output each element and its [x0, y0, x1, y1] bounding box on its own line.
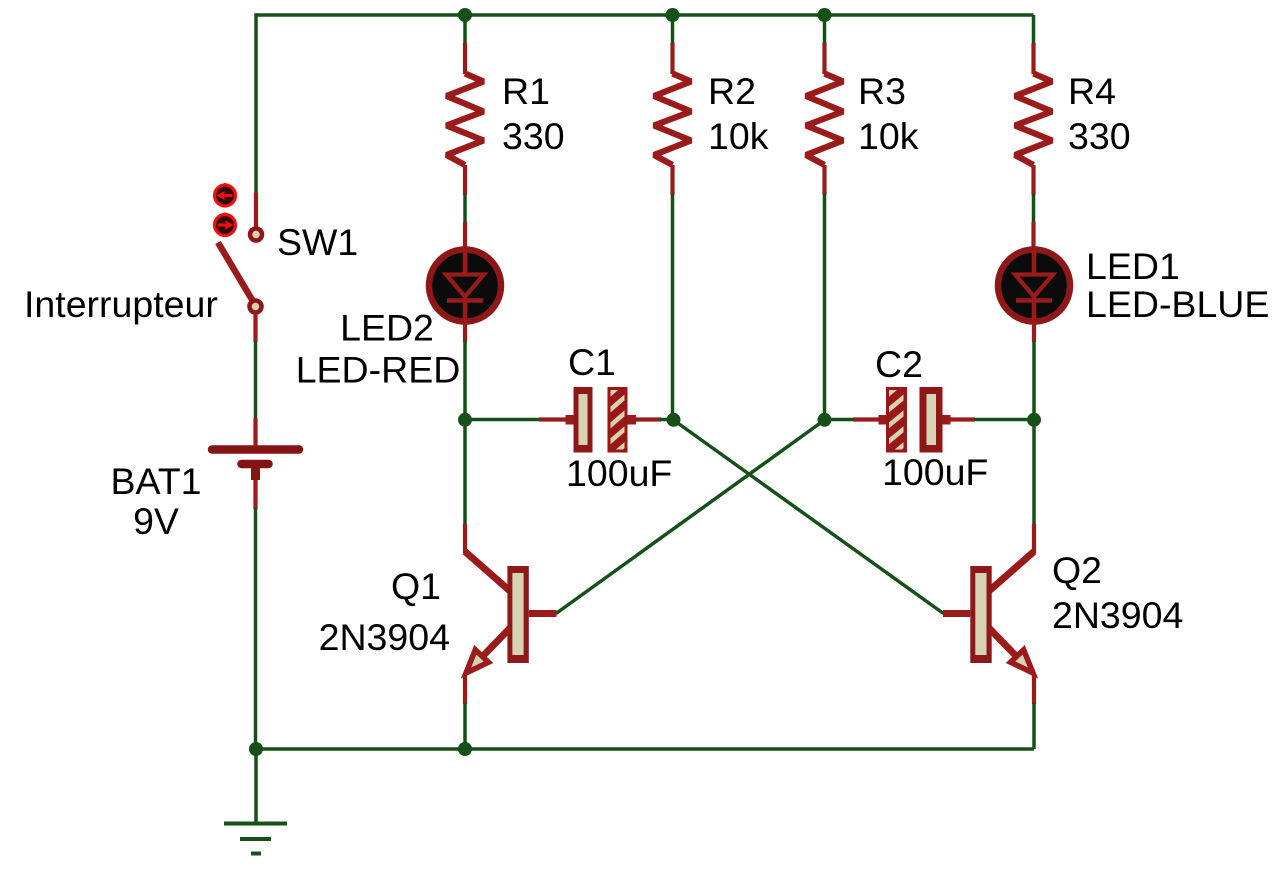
wire R3 top stub	[823, 15, 827, 44]
wire R1 to LED2	[463, 194, 467, 223]
capacitor C1	[539, 379, 661, 461]
wire node C to C2	[825, 418, 855, 422]
capacitor C2	[853, 379, 975, 461]
svg-text:330: 330	[502, 115, 565, 157]
node D junction	[1027, 413, 1041, 427]
svg-text:R3: R3	[858, 70, 906, 112]
resistor R2	[654, 43, 691, 195]
resistor R1	[447, 43, 484, 195]
ground	[224, 749, 287, 854]
svg-text:C2: C2	[875, 343, 923, 385]
svg-text:LED2: LED2	[340, 307, 434, 349]
wire node A to Q1 collector	[463, 420, 467, 525]
switch SW1	[215, 183, 263, 342]
LED D1 (LED1)	[998, 222, 1070, 342]
svg-text:SW1: SW1	[277, 221, 358, 263]
svg-text:10k: 10k	[708, 115, 769, 157]
svg-text:R1: R1	[502, 70, 550, 112]
wire left column top (to switch)	[254, 13, 258, 193]
wire R1 top stub	[463, 15, 467, 44]
svg-text:C1: C1	[568, 341, 616, 383]
svg-text:10k: 10k	[858, 115, 919, 157]
wire R3 to node C	[823, 194, 827, 419]
resistor R4	[1015, 43, 1052, 195]
wire node C to Q1 base (diagonal)	[556, 420, 825, 614]
wire C2 to node D	[974, 418, 1034, 422]
svg-text:330: 330	[1068, 115, 1131, 157]
node A junction	[458, 413, 472, 427]
wire bottom rail	[256, 747, 1034, 751]
svg-text:100uF: 100uF	[882, 451, 988, 493]
svg-text:R4: R4	[1068, 70, 1116, 112]
battery BAT1	[212, 418, 299, 509]
wire battery to bottom rail	[254, 508, 258, 750]
wire R4 to LED1	[1032, 194, 1036, 223]
transistor Q1	[465, 524, 557, 704]
wire R4 top stub	[1032, 15, 1036, 44]
svg-text:LED1: LED1	[1086, 245, 1180, 287]
svg-text:Q2: Q2	[1052, 549, 1102, 591]
wire LED2 to node A	[463, 341, 467, 419]
svg-text:R2: R2	[708, 70, 756, 112]
wire switch to battery	[254, 341, 258, 419]
svg-text:LED-BLUE: LED-BLUE	[1086, 283, 1269, 325]
wire Q1 emitter to bottom rail	[463, 703, 467, 749]
wire node D to Q2 collector	[1032, 420, 1036, 525]
svg-text:Interrupteur: Interrupteur	[24, 283, 218, 325]
wire node B to Q2 base (diagonal)	[674, 420, 944, 614]
wire node A to C1	[465, 418, 540, 422]
svg-text:BAT1: BAT1	[110, 460, 201, 502]
node top R1	[458, 8, 472, 22]
node B junction	[667, 413, 681, 427]
wire C1 to node B	[660, 418, 674, 422]
node C junction	[818, 413, 832, 427]
wire LED1 to node D	[1032, 341, 1036, 419]
node bottom Q1 junction	[458, 742, 472, 756]
wire top rail VCC	[256, 13, 1034, 17]
node top R2	[666, 8, 680, 22]
resistor R3	[806, 43, 843, 195]
transistor Q2	[943, 524, 1034, 704]
wire R2 top stub	[671, 15, 675, 44]
svg-text:9V: 9V	[133, 500, 179, 542]
node bottom left junction	[249, 742, 263, 756]
wire Q2 emitter to bottom rail	[1032, 703, 1036, 749]
LED D2 (LED2)	[429, 222, 501, 342]
svg-text:Q1: Q1	[391, 565, 441, 607]
svg-text:LED-RED: LED-RED	[296, 349, 461, 391]
svg-text:2N3904: 2N3904	[1052, 594, 1183, 636]
node top R3	[818, 8, 832, 22]
wire R2 to node B	[671, 194, 675, 419]
svg-text:100uF: 100uF	[566, 452, 672, 494]
svg-text:2N3904: 2N3904	[319, 616, 450, 658]
